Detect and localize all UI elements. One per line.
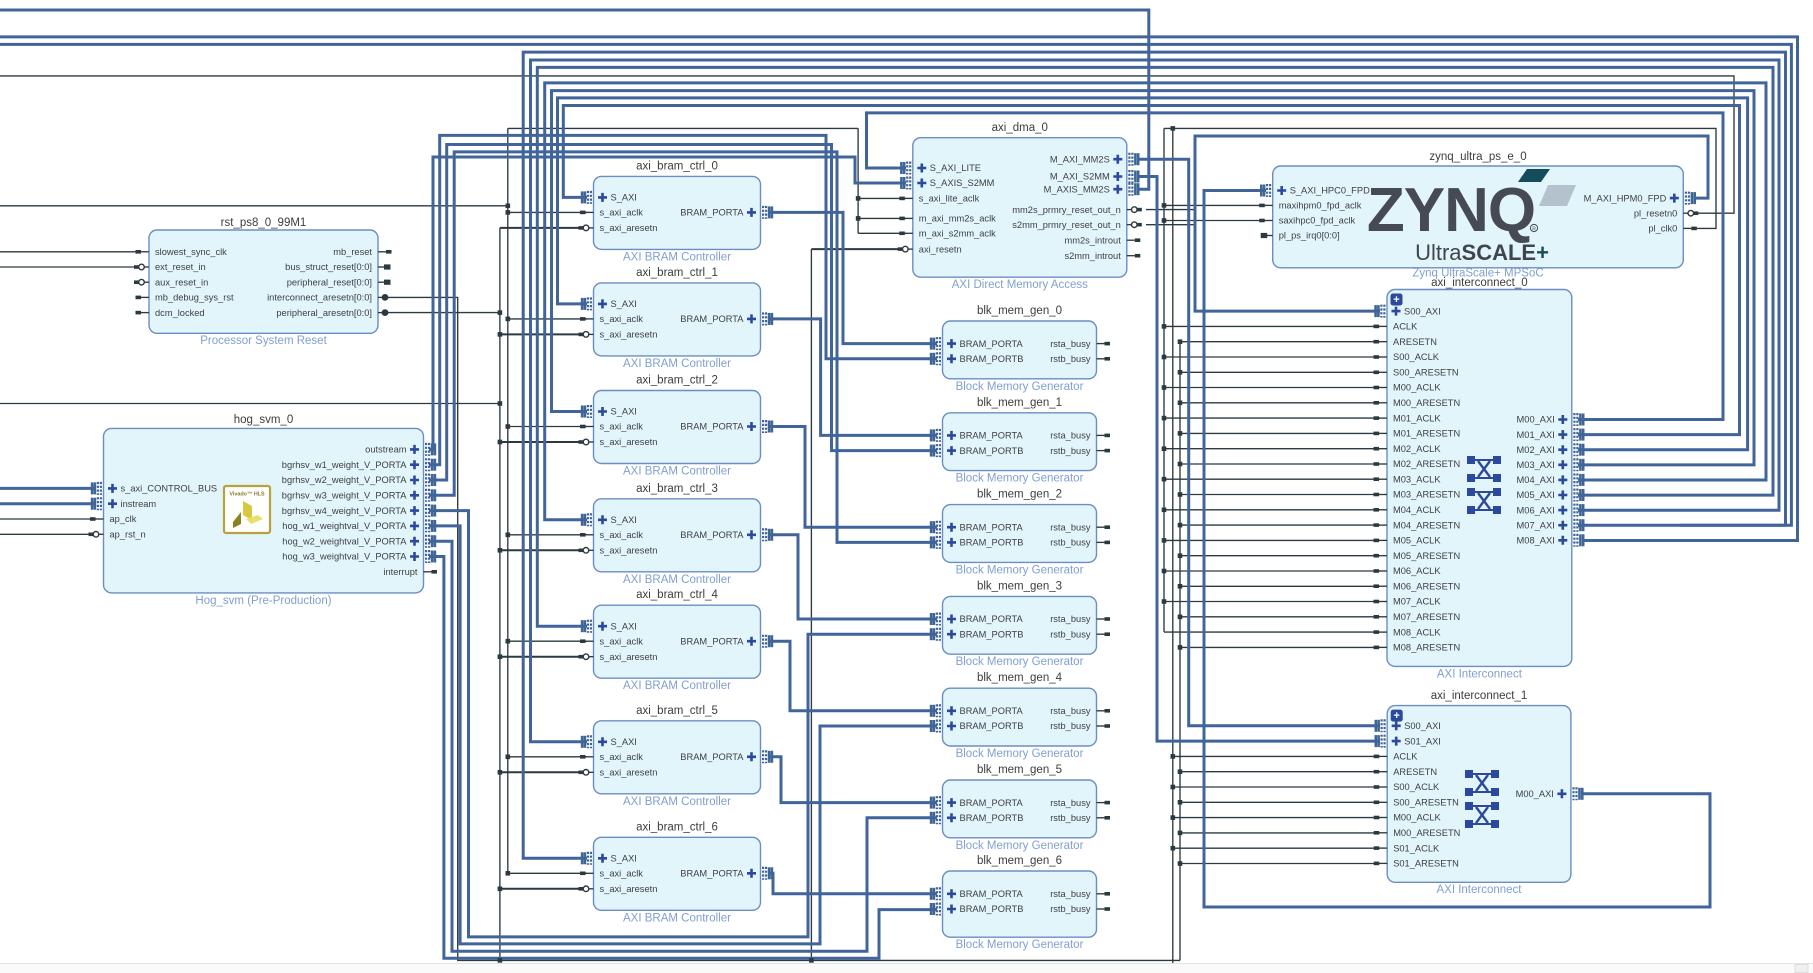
svg-text:AXI BRAM Controller: AXI BRAM Controller xyxy=(623,251,731,263)
wire interconnect0 ACLK row 2 xyxy=(1164,387,1380,389)
svg-text:M07_ARESETN: M07_ARESETN xyxy=(1393,612,1460,622)
svg-text:rstb_busy: rstb_busy xyxy=(1050,813,1091,823)
block axi_bram_ctrl_1 xyxy=(579,267,772,370)
wire interconnect0 ACLK row 4 xyxy=(1164,448,1380,450)
svg-text:S01_AXI: S01_AXI xyxy=(1404,736,1441,746)
svg-text:AXI BRAM Controller: AXI BRAM Controller xyxy=(623,912,731,924)
wire M_AXIS_MM2S to hog instream xyxy=(0,10,1149,189)
block axi_bram_ctrl_3 xyxy=(579,483,772,586)
svg-text:S00_ARESETN: S00_ARESETN xyxy=(1393,798,1459,808)
wire s_axi_aresetn branch ctrl_0 xyxy=(500,227,587,229)
svg-text:s_axi_aclk: s_axi_aclk xyxy=(600,208,644,218)
svg-text:S_AXI_LITE: S_AXI_LITE xyxy=(930,163,981,173)
svg-text:s_axi_aresetn: s_axi_aresetn xyxy=(600,652,658,662)
svg-text:M02_ARESETN: M02_ARESETN xyxy=(1393,459,1460,469)
svg-text:M00_AXI: M00_AXI xyxy=(1517,415,1555,425)
wire interconnect1 clock row 3 xyxy=(1173,847,1380,849)
svg-text:s_axi_aclk: s_axi_aclk xyxy=(600,869,644,879)
svg-text:hog_w2_weightval_V_PORTA: hog_w2_weightval_V_PORTA xyxy=(282,536,407,546)
svg-text:M00_ARESETN: M00_ARESETN xyxy=(1393,828,1460,838)
wire s_axi_aclk branch ctrl_4 xyxy=(508,640,587,642)
svg-text:BRAM_PORTB: BRAM_PORTB xyxy=(960,721,1024,731)
wire s_axi_aclk branch ctrl_1 xyxy=(508,318,587,320)
wire hog outstream to axi_dma S_AXIS_S2MM xyxy=(429,157,906,449)
wire mm2s_prmry_reset_out_n stub wire xyxy=(1146,209,1196,211)
svg-text:mm2s_prmry_reset_out_n: mm2s_prmry_reset_out_n xyxy=(1012,205,1121,215)
svg-text:axi_bram_ctrl_6: axi_bram_ctrl_6 xyxy=(636,821,718,833)
svg-text:ap_rst_n: ap_rst_n xyxy=(110,530,146,540)
svg-text:saxihpc0_fpd_aclk: saxihpc0_fpd_aclk xyxy=(1279,216,1356,226)
svg-text:blk_mem_gen_6: blk_mem_gen_6 xyxy=(977,855,1062,867)
wire interconnect0 ACLK row 5 xyxy=(1164,478,1380,480)
svg-text:bgrhsv_w1_weight_V_PORTA: bgrhsv_w1_weight_V_PORTA xyxy=(282,460,408,470)
wire interconnect0 ACLK row 0 xyxy=(1164,325,1380,327)
svg-text:Block Memory Generator: Block Memory Generator xyxy=(956,748,1084,760)
svg-text:bgrhsv_w4_weight_V_PORTA: bgrhsv_w4_weight_V_PORTA xyxy=(282,506,408,516)
block blk_mem_gen_6 xyxy=(931,855,1110,951)
svg-text:S01_ACLK: S01_ACLK xyxy=(1393,843,1440,853)
svg-text:S01_ARESETN: S01_ARESETN xyxy=(1393,859,1459,869)
svg-text:interconnect_aresetn[0:0]: interconnect_aresetn[0:0] xyxy=(267,293,372,303)
svg-text:M04_ACLK: M04_ACLK xyxy=(1393,505,1441,515)
wire axi_bram_ctrl_5 BRAM_PORTA to blk_mem_gen_5 xyxy=(770,757,937,803)
wire interconnect0 ARESETN row 9 xyxy=(1180,616,1380,618)
svg-text:zynq_ultra_ps_e_0: zynq_ultra_ps_e_0 xyxy=(1429,151,1526,163)
svg-text:M03_AXI: M03_AXI xyxy=(1517,460,1555,470)
svg-text:axi_interconnect_0: axi_interconnect_0 xyxy=(1431,277,1528,289)
wire interconnect0 ARESETN row 6 xyxy=(1180,524,1380,526)
wire interconnect1 reset row 3 xyxy=(1180,863,1380,865)
wire hog_w3 to blk_mem_gen_6 PORTB xyxy=(429,557,937,959)
svg-text:rstb_busy: rstb_busy xyxy=(1050,721,1091,731)
wire s2mm_prmry_reset_out_n stub wire xyxy=(1146,224,1196,226)
wire bgrhsv_w1 to blk_mem_gen_0 PORTB xyxy=(429,135,937,464)
wire s_axi_aresetn branch ctrl_2 xyxy=(500,441,587,443)
block hog_svm_0 xyxy=(89,414,438,607)
svg-text:s_axi_aresetn: s_axi_aresetn xyxy=(600,768,658,778)
wire bgrhsv_w3 to blk_mem_gen_2 PORTB xyxy=(429,152,937,543)
wire interconnect0 ACLK row 10 xyxy=(1164,631,1380,633)
svg-text:hog_w1_weightval_V_PORTA: hog_w1_weightval_V_PORTA xyxy=(282,521,407,531)
svg-text:axi_bram_ctrl_2: axi_bram_ctrl_2 xyxy=(636,375,718,387)
svg-text:ARESETN: ARESETN xyxy=(1393,767,1437,777)
wire slowest_sync_clk feed xyxy=(0,251,141,253)
svg-text:S_AXI: S_AXI xyxy=(611,299,637,309)
svg-text:M06_ARESETN: M06_ARESETN xyxy=(1393,581,1460,591)
svg-text:hog_svm_0: hog_svm_0 xyxy=(234,414,293,426)
wire clock vertical zynq/interconnect0 xyxy=(1163,128,1165,632)
svg-text:rstb_busy: rstb_busy xyxy=(1050,629,1091,639)
junction dots clock/reset nets xyxy=(1171,126,1176,131)
svg-text:AXI Interconnect: AXI Interconnect xyxy=(1436,884,1522,896)
svg-text:rsta_busy: rsta_busy xyxy=(1050,889,1091,899)
svg-text:M00_ARESETN: M00_ARESETN xyxy=(1393,398,1460,408)
svg-text:AXI BRAM Controller: AXI BRAM Controller xyxy=(623,466,731,478)
svg-text:s_axi_aresetn: s_axi_aresetn xyxy=(600,330,658,340)
wire M00_AXI to axi_dma S_AXI_LITE xyxy=(867,113,1724,420)
svg-text:bgrhsv_w2_weight_V_PORTA: bgrhsv_w2_weight_V_PORTA xyxy=(282,475,408,485)
svg-text:rstb_busy: rstb_busy xyxy=(1050,904,1091,914)
svg-text:AXI BRAM Controller: AXI BRAM Controller xyxy=(623,796,731,808)
wire interconnect0 ACLK row 9 xyxy=(1164,601,1380,603)
svg-text:M00_ACLK: M00_ACLK xyxy=(1393,813,1441,823)
wire reset feed from west xyxy=(0,403,500,405)
wire clock feed from west xyxy=(0,205,508,207)
svg-text:Block Memory Generator: Block Memory Generator xyxy=(956,656,1084,668)
svg-text:Block Memory Generator: Block Memory Generator xyxy=(956,939,1084,951)
wire ext_reset_in feed xyxy=(0,266,138,268)
svg-text:BRAM_PORTA: BRAM_PORTA xyxy=(680,530,744,540)
wire ap_clk feed xyxy=(0,518,96,520)
svg-text:pl_ps_irq0[0:0]: pl_ps_irq0[0:0] xyxy=(1279,231,1340,241)
svg-text:m_axi_s2mm_aclk: m_axi_s2mm_aclk xyxy=(919,229,996,239)
wire M05_AXI to axi_bram_ctrl_4 S_AXI xyxy=(537,67,1773,626)
svg-text:S_AXI: S_AXI xyxy=(611,193,637,203)
svg-text:S_AXI_HPC0_FPD: S_AXI_HPC0_FPD xyxy=(1290,186,1370,196)
svg-text:M07_AXI: M07_AXI xyxy=(1517,520,1555,530)
block rst_ps8_0_99M1 xyxy=(134,217,392,347)
wire M_AXI_S2MM to interconnect1 S01_AXI xyxy=(1137,177,1380,742)
svg-text:ext_reset_in: ext_reset_in xyxy=(155,262,206,272)
svg-text:M04_ARESETN: M04_ARESETN xyxy=(1393,520,1460,530)
svg-text:m_axi_mm2s_aclk: m_axi_mm2s_aclk xyxy=(919,214,996,224)
svg-text:M02_AXI: M02_AXI xyxy=(1517,445,1555,455)
wire interconnect0 ARESETN row 3 xyxy=(1180,432,1380,434)
svg-text:rsta_busy: rsta_busy xyxy=(1050,522,1091,532)
wire M07_AXI to axi_bram_ctrl_6 S_AXI xyxy=(523,52,1785,858)
wire hog s_axi_CONTROL_BUS entry xyxy=(0,487,96,490)
svg-text:BRAM_PORTA: BRAM_PORTA xyxy=(960,431,1024,441)
svg-text:BRAM_PORTB: BRAM_PORTB xyxy=(960,904,1024,914)
wire interconnect0 ARESETN row 5 xyxy=(1180,494,1380,496)
svg-text:M08_AXI: M08_AXI xyxy=(1517,536,1555,546)
svg-text:M01_AXI: M01_AXI xyxy=(1517,430,1555,440)
svg-text:BRAM_PORTA: BRAM_PORTA xyxy=(960,706,1024,716)
svg-text:rsta_busy: rsta_busy xyxy=(1050,798,1091,808)
wire clock net west xyxy=(508,127,858,129)
wire axi_resetn vertical xyxy=(810,249,812,960)
svg-text:rstb_busy: rstb_busy xyxy=(1050,538,1091,548)
svg-text:axi_dma_0: axi_dma_0 xyxy=(992,122,1048,134)
wire pl_resetn0 reset net top xyxy=(0,76,1734,213)
svg-text:rst_ps8_0_99M1: rst_ps8_0_99M1 xyxy=(221,217,307,229)
svg-text:s_axi_aclk: s_axi_aclk xyxy=(600,752,644,762)
wire s_axi_aresetn branch ctrl_4 xyxy=(500,656,587,658)
svg-text:mb_debug_sys_rst: mb_debug_sys_rst xyxy=(155,293,234,303)
svg-text:M03_ACLK: M03_ACLK xyxy=(1393,474,1441,484)
wire interconnect1 clock row 1 xyxy=(1173,786,1380,788)
wire zynq M_AXI_HPM0_FPD to interconnect0 S00_AXI xyxy=(1195,136,1708,311)
svg-text:M_AXIS_MM2S: M_AXIS_MM2S xyxy=(1044,184,1110,194)
svg-text:s_axi_aclk: s_axi_aclk xyxy=(600,530,644,540)
wire interconnect1 reset row 0 xyxy=(1180,771,1380,773)
wire M02_AXI to axi_bram_ctrl_1 S_AXI xyxy=(558,98,1748,450)
svg-text:rsta_busy: rsta_busy xyxy=(1050,614,1091,624)
svg-text:rsta_busy: rsta_busy xyxy=(1050,431,1091,441)
wire axi_bram_ctrl_2 BRAM_PORTA to blk_mem_gen_2 xyxy=(770,427,937,528)
svg-text:BRAM_PORTB: BRAM_PORTB xyxy=(960,446,1024,456)
wire interconnect0 ACLK row 3 xyxy=(1164,417,1380,419)
wire aresetn vertical right xyxy=(1179,342,1181,961)
wire interconnect0 ACLK row 8 xyxy=(1164,570,1380,572)
svg-text:s_axi_aresetn: s_axi_aresetn xyxy=(600,884,658,894)
wire hog instream entry xyxy=(0,502,96,505)
svg-text:M02_ACLK: M02_ACLK xyxy=(1393,444,1441,454)
svg-text:s_axi_lite_aclk: s_axi_lite_aclk xyxy=(919,194,980,204)
svg-text:rsta_busy: rsta_busy xyxy=(1050,706,1091,716)
wire s_axi_aclk branch ctrl_2 xyxy=(508,426,587,428)
svg-text:M07_ACLK: M07_ACLK xyxy=(1393,597,1441,607)
svg-text:M06_AXI: M06_AXI xyxy=(1517,505,1555,515)
wire s_axi_aresetn branch ctrl_1 xyxy=(500,333,587,335)
svg-text:axi_resetn: axi_resetn xyxy=(919,244,962,254)
wire hog_w1 to blk_mem_gen_4 PORTB xyxy=(429,526,937,944)
svg-text:mb_reset: mb_reset xyxy=(333,247,372,257)
svg-text:BRAM_PORTA: BRAM_PORTA xyxy=(960,889,1024,899)
svg-text:S00_ARESETN: S00_ARESETN xyxy=(1393,368,1459,378)
wire interconnect0 ARESETN row 2 xyxy=(1180,402,1380,404)
svg-text:AXI BRAM Controller: AXI BRAM Controller xyxy=(623,574,731,586)
svg-text:hog_w3_weightval_V_PORTA: hog_w3_weightval_V_PORTA xyxy=(282,552,407,562)
svg-text:M08_ARESETN: M08_ARESETN xyxy=(1393,643,1460,653)
svg-text:mm2s_introut: mm2s_introut xyxy=(1064,235,1121,245)
svg-text:s_axi_aclk: s_axi_aclk xyxy=(600,314,644,324)
wire interconnect1 reset row 1 xyxy=(1180,801,1380,803)
wire interconnect1 clock row 0 xyxy=(1173,755,1380,757)
svg-text:S00_AXI: S00_AXI xyxy=(1404,721,1441,731)
wire s_axi_aclk branch ctrl_3 xyxy=(508,534,587,536)
svg-text:UltraSCALE+: UltraSCALE+ xyxy=(1415,240,1549,265)
wire pl_clk0 clock net east xyxy=(1164,128,1716,228)
svg-text:s_axi_aresetn: s_axi_aresetn xyxy=(600,223,658,233)
svg-text:ARESETN: ARESETN xyxy=(1393,337,1437,347)
wire s_axi_aclk branch ctrl_0 xyxy=(508,211,587,213)
svg-text:M_AXI_MM2S: M_AXI_MM2S xyxy=(1050,154,1110,164)
svg-text:BRAM_PORTA: BRAM_PORTA xyxy=(680,636,744,646)
svg-text:M_AXI_S2MM: M_AXI_S2MM xyxy=(1050,172,1110,182)
svg-text:M03_ARESETN: M03_ARESETN xyxy=(1393,490,1460,500)
wire interconnect0 ARESETN row 10 xyxy=(1180,646,1380,648)
svg-text:S_AXI: S_AXI xyxy=(611,515,637,525)
svg-text:BRAM_PORTA: BRAM_PORTA xyxy=(960,522,1024,532)
wire axi_bram_ctrl_4 BRAM_PORTA to blk_mem_gen_4 xyxy=(770,641,937,711)
block axi_interconnect_1 xyxy=(1374,690,1583,896)
wire s_axi_aresetn branch ctrl_5 xyxy=(500,771,587,773)
svg-text:M05_ARESETN: M05_ARESETN xyxy=(1393,551,1460,561)
svg-text:S_AXI: S_AXI xyxy=(611,737,637,747)
block zynq_ultra_ps_e_0 xyxy=(1259,151,1698,280)
svg-text:bgrhsv_w3_weight_V_PORTA: bgrhsv_w3_weight_V_PORTA xyxy=(282,491,408,501)
svg-text:aux_reset_in: aux_reset_in xyxy=(155,277,208,287)
svg-text:ACLK: ACLK xyxy=(1393,322,1418,332)
wire maxihpm0_fpd_aclk branch xyxy=(1164,204,1266,206)
svg-text:BRAM_PORTA: BRAM_PORTA xyxy=(680,869,744,879)
wire M04_AXI to axi_bram_ctrl_3 S_AXI xyxy=(545,83,1766,520)
wire s_axi_lite_aclk branch xyxy=(858,197,906,199)
wire M03_AXI to axi_bram_ctrl_2 S_AXI xyxy=(552,91,1755,465)
wire interconnect0 ACLK row 6 xyxy=(1164,509,1380,511)
block axi_bram_ctrl_2 xyxy=(579,375,772,478)
svg-text:slowest_sync_clk: slowest_sync_clk xyxy=(155,247,227,257)
svg-text:s_axi_aresetn: s_axi_aresetn xyxy=(600,437,658,447)
svg-text:AXI Interconnect: AXI Interconnect xyxy=(1437,669,1523,681)
block axi_interconnect_0 xyxy=(1374,277,1584,681)
block blk_mem_gen_0 xyxy=(931,305,1110,393)
svg-text:BRAM_PORTA: BRAM_PORTA xyxy=(960,614,1024,624)
svg-text:blk_mem_gen_2: blk_mem_gen_2 xyxy=(977,489,1062,501)
wire s_axi_aclk branch ctrl_6 xyxy=(508,872,587,874)
svg-text:s2mm_introut: s2mm_introut xyxy=(1064,251,1121,261)
wire interconnect0 ARESETN row 7 xyxy=(1180,555,1380,557)
svg-text:BRAM_PORTB: BRAM_PORTB xyxy=(960,354,1024,364)
wire s_axi_aclk branch ctrl_5 xyxy=(508,756,587,758)
svg-text:rstb_busy: rstb_busy xyxy=(1050,446,1091,456)
block axi_dma_0 xyxy=(898,122,1142,291)
svg-text:ACLK: ACLK xyxy=(1393,752,1418,762)
wire interconnect0 ACLK row 7 xyxy=(1164,539,1380,541)
block axi_bram_ctrl_4 xyxy=(579,589,772,692)
wire clock vertical ctrl column xyxy=(507,128,509,873)
wire axi_bram_ctrl_1 BRAM_PORTA to blk_mem_gen_1 xyxy=(770,319,937,436)
svg-text:peripheral_reset[0:0]: peripheral_reset[0:0] xyxy=(287,277,372,287)
wire bgrhsv_w4 to blk_mem_gen_3 PORTB xyxy=(429,511,937,937)
svg-text:s_axi_CONTROL_BUS: s_axi_CONTROL_BUS xyxy=(121,484,218,494)
svg-text:axi_interconnect_1: axi_interconnect_1 xyxy=(1431,690,1528,702)
wire axi_bram_ctrl_3 BRAM_PORTA to blk_mem_gen_3 xyxy=(770,535,937,619)
svg-text:Vivado™ HLS: Vivado™ HLS xyxy=(229,492,265,498)
wire s_axi_aresetn branch ctrl_6 xyxy=(500,888,587,890)
svg-text:BRAM_PORTA: BRAM_PORTA xyxy=(680,422,744,432)
svg-text:bus_struct_reset[0:0]: bus_struct_reset[0:0] xyxy=(285,262,372,272)
wire axi_bram_ctrl_0 BRAM_PORTA to blk_mem_gen_0 xyxy=(770,212,937,343)
svg-text:ap_clk: ap_clk xyxy=(110,514,137,524)
svg-text:axi_bram_ctrl_1: axi_bram_ctrl_1 xyxy=(636,267,718,279)
svg-text:s_axi_aresetn: s_axi_aresetn xyxy=(600,546,658,556)
svg-text:BRAM_PORTB: BRAM_PORTB xyxy=(960,538,1024,548)
svg-text:interrupt: interrupt xyxy=(383,567,418,577)
svg-text:pl_clk0: pl_clk0 xyxy=(1648,224,1677,234)
wire axi bus long loop B xyxy=(0,44,1791,525)
wire interconnect_aresetn net xyxy=(386,297,1180,960)
svg-text:M06_ACLK: M06_ACLK xyxy=(1393,566,1441,576)
wire M_AXI_MM2S to interconnect1 S00_AXI xyxy=(1137,159,1380,726)
svg-text:M05_ACLK: M05_ACLK xyxy=(1393,536,1441,546)
wire saxihpc0_fpd_aclk branch xyxy=(1164,220,1266,222)
block blk_mem_gen_4 xyxy=(931,672,1110,760)
svg-text:blk_mem_gen_3: blk_mem_gen_3 xyxy=(977,580,1062,592)
svg-text:M08_ACLK: M08_ACLK xyxy=(1393,627,1441,637)
svg-text:BRAM_PORTB: BRAM_PORTB xyxy=(960,629,1024,639)
block blk_mem_gen_1 xyxy=(931,397,1110,485)
wire M01_AXI to axi_bram_ctrl_0 S_AXI xyxy=(563,106,1739,435)
block blk_mem_gen_3 xyxy=(931,580,1110,668)
wire bgrhsv_w2 to blk_mem_gen_1 PORTB xyxy=(429,145,937,481)
wire s_axi_aresetn branch ctrl_3 xyxy=(500,549,587,551)
svg-text:pl_resetn0: pl_resetn0 xyxy=(1634,208,1677,218)
wire peripheral_aresetn branch xyxy=(386,312,500,314)
svg-text:AXI Direct Memory Access: AXI Direct Memory Access xyxy=(952,279,1088,291)
wire M06_AXI to axi_bram_ctrl_5 S_AXI xyxy=(531,60,1780,742)
wire interconnect1 reset row 2 xyxy=(1180,832,1380,834)
svg-text:maxihpm0_fpd_aclk: maxihpm0_fpd_aclk xyxy=(1279,201,1362,211)
svg-text:Processor System Reset: Processor System Reset xyxy=(200,335,327,347)
svg-text:peripheral_aresetn[0:0]: peripheral_aresetn[0:0] xyxy=(276,308,372,318)
svg-text:blk_mem_gen_5: blk_mem_gen_5 xyxy=(977,764,1062,776)
wire interconnect0 ARESETN row 8 xyxy=(1180,585,1380,587)
wire interconnect0 ARESETN row 0 xyxy=(1180,341,1380,343)
wire m_axi_mm2s_aclk branch xyxy=(858,217,906,219)
svg-text:S_AXI: S_AXI xyxy=(611,854,637,864)
svg-text:M00_AXI: M00_AXI xyxy=(1516,789,1554,799)
svg-text:M_AXI_HPM0_FPD: M_AXI_HPM0_FPD xyxy=(1584,193,1667,203)
wire M08_AXI to hog control bus xyxy=(0,37,1798,541)
block blk_mem_gen_2 xyxy=(931,489,1110,577)
block blk_mem_gen_5 xyxy=(931,764,1110,852)
svg-text:BRAM_PORTA: BRAM_PORTA xyxy=(680,208,744,218)
svg-text:S00_ACLK: S00_ACLK xyxy=(1393,352,1440,362)
svg-text:Block Memory Generator: Block Memory Generator xyxy=(956,473,1084,485)
svg-text:M01_ACLK: M01_ACLK xyxy=(1393,413,1441,423)
svg-text:S_AXIS_S2MM: S_AXIS_S2MM xyxy=(930,178,995,188)
svg-text:S_AXI: S_AXI xyxy=(611,407,637,417)
svg-text:BRAM_PORTA: BRAM_PORTA xyxy=(680,314,744,324)
svg-text:M00_ACLK: M00_ACLK xyxy=(1393,383,1441,393)
svg-text:s2mm_prmry_reset_out_n: s2mm_prmry_reset_out_n xyxy=(1012,220,1121,230)
svg-text:Block Memory Generator: Block Memory Generator xyxy=(956,840,1084,852)
svg-text:BRAM_PORTA: BRAM_PORTA xyxy=(960,339,1024,349)
svg-text:M01_ARESETN: M01_ARESETN xyxy=(1393,429,1460,439)
svg-text:rstb_busy: rstb_busy xyxy=(1050,354,1091,364)
svg-text:ZYNQ: ZYNQ xyxy=(1367,176,1535,245)
svg-text:S_AXI: S_AXI xyxy=(611,621,637,631)
wire ap_rst_n feed xyxy=(0,533,93,535)
svg-text:+: + xyxy=(1393,710,1399,722)
wire axi_resetn net xyxy=(811,248,906,250)
svg-text:S00_AXI: S00_AXI xyxy=(1404,306,1441,316)
svg-text:Block Memory Generator: Block Memory Generator xyxy=(956,564,1084,576)
svg-text:AXI BRAM Controller: AXI BRAM Controller xyxy=(623,680,731,692)
block axi_bram_ctrl_6 xyxy=(579,821,772,924)
wire hog_w2 to blk_mem_gen_5 PORTB xyxy=(429,541,937,951)
svg-text:axi_bram_ctrl_0: axi_bram_ctrl_0 xyxy=(636,160,718,172)
svg-text:axi_bram_ctrl_3: axi_bram_ctrl_3 xyxy=(636,483,718,495)
wire interconnect0 ARESETN row 4 xyxy=(1180,463,1380,465)
svg-text:dcm_locked: dcm_locked xyxy=(155,308,205,318)
svg-text:S00_ACLK: S00_ACLK xyxy=(1393,782,1440,792)
svg-text:s_axi_aclk: s_axi_aclk xyxy=(600,422,644,432)
svg-text:BRAM_PORTA: BRAM_PORTA xyxy=(960,798,1024,808)
wire interconnect0 ARESETN row 1 xyxy=(1180,371,1380,373)
wire aresetn vertical ctrl column xyxy=(499,228,501,961)
wire clock vertical interconnect1 xyxy=(1172,128,1174,971)
block axi_bram_ctrl_0 xyxy=(579,160,772,263)
svg-text:BRAM_PORTB: BRAM_PORTB xyxy=(960,813,1024,823)
svg-text:Block Memory Generator: Block Memory Generator xyxy=(956,381,1084,393)
svg-text:axi_bram_ctrl_4: axi_bram_ctrl_4 xyxy=(636,589,718,601)
svg-text:M05_AXI: M05_AXI xyxy=(1517,490,1555,500)
wire m_axi_s2mm_aclk branch xyxy=(858,232,906,234)
svg-text:Hog_svm (Pre-Production): Hog_svm (Pre-Production) xyxy=(195,595,331,607)
svg-text:blk_mem_gen_1: blk_mem_gen_1 xyxy=(977,397,1062,409)
svg-text:rsta_busy: rsta_busy xyxy=(1050,339,1091,349)
svg-text:BRAM_PORTA: BRAM_PORTA xyxy=(680,752,744,762)
scrollbar xyxy=(0,964,1813,973)
svg-text:instream: instream xyxy=(121,499,157,509)
svg-text:s_axi_aclk: s_axi_aclk xyxy=(600,636,644,646)
svg-text:+: + xyxy=(1393,294,1399,306)
block axi_bram_ctrl_5 xyxy=(579,705,772,808)
wire interconnect0 ACLK row 1 xyxy=(1164,356,1380,358)
